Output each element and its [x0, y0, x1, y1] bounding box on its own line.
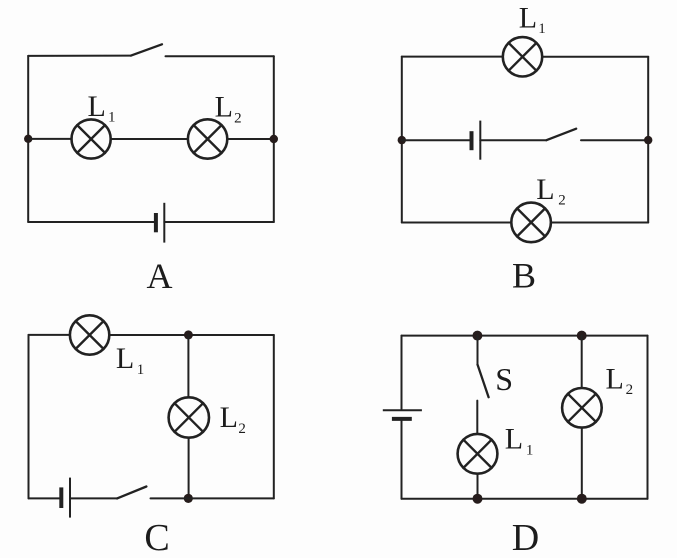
- label L1 (circuit B): [519, 2, 546, 38]
- svg-text:2: 2: [558, 193, 566, 209]
- wire D branch1 middle: [476, 401, 478, 434]
- svg-text:A: A: [147, 256, 173, 296]
- label L2 (circuit C): [220, 401, 246, 437]
- svg-text:L: L: [215, 90, 233, 123]
- wire D branch1 upper: [477, 336, 479, 364]
- svg-text:1: 1: [108, 109, 116, 125]
- node D branch2 top junction: [577, 331, 587, 341]
- wire A right side: [273, 56, 275, 222]
- wire B middle segment 2: [480, 139, 546, 141]
- label L1 (circuit D): [505, 423, 534, 459]
- node C-bottom junction: [184, 494, 193, 503]
- battery B3 (circuit C) short thick plate: [59, 487, 63, 508]
- wire B left side: [401, 57, 403, 223]
- wire A top-right segment: [166, 55, 274, 57]
- wire B middle segment 1: [402, 139, 470, 141]
- wire B bottom-right segment: [551, 222, 648, 224]
- svg-text:2: 2: [626, 382, 634, 398]
- wire C bottom-left segment: [29, 497, 60, 499]
- node B-right junction: [644, 136, 652, 144]
- wire C left side: [28, 335, 30, 499]
- node A-left junction: [24, 135, 32, 143]
- switch S2 blade (circuit B): [546, 129, 576, 141]
- wire D branch2 lower: [581, 428, 583, 499]
- lamp L1 (circuit D): [458, 434, 498, 474]
- wire A bottom-left segment: [28, 221, 154, 223]
- wire B top-right segment: [542, 56, 648, 58]
- wire A top-left segment: [28, 55, 131, 57]
- svg-text:1: 1: [526, 443, 534, 459]
- lamp L1 (circuit C): [70, 315, 109, 354]
- battery B3 (circuit C) long thin plate: [69, 478, 71, 518]
- wire D branch2 upper: [581, 336, 583, 388]
- svg-text:L: L: [505, 423, 523, 456]
- battery B4 (circuit D) long thin plate: [383, 409, 422, 411]
- svg-text:L: L: [88, 90, 106, 123]
- wire C middle branch lower: [188, 438, 190, 499]
- svg-text:S: S: [495, 361, 513, 397]
- node B-left junction: [398, 136, 406, 144]
- lamp L2 (circuit A): [188, 119, 227, 158]
- svg-text:C: C: [144, 517, 169, 558]
- wire B right side: [647, 57, 649, 223]
- label L2 (circuit D): [606, 363, 634, 398]
- wire A left side: [27, 56, 29, 222]
- switch S blade (circuit D): [478, 365, 489, 398]
- wire D top: [402, 335, 648, 337]
- wire B top-left segment: [402, 56, 503, 58]
- svg-text:1: 1: [538, 21, 546, 37]
- wire D left upper: [401, 336, 403, 409]
- wire A middle segment 1: [28, 138, 71, 140]
- wire C top-right segment: [109, 334, 273, 336]
- switch S1 blade (circuit A): [131, 44, 162, 55]
- node D branch1 bottom junction: [473, 494, 483, 504]
- label L2 (circuit B): [536, 173, 566, 209]
- lamp L2 (circuit D): [562, 388, 602, 428]
- svg-text:B: B: [512, 256, 536, 296]
- wire D right side: [647, 336, 649, 499]
- node D branch2 bottom junction: [577, 494, 587, 504]
- svg-text:2: 2: [238, 421, 246, 437]
- svg-text:L: L: [220, 401, 238, 434]
- wire D branch1 lower: [477, 474, 479, 499]
- wire A bottom-right segment: [164, 221, 273, 223]
- svg-text:L: L: [606, 363, 624, 396]
- wire B bottom-left segment: [402, 222, 512, 224]
- svg-text:1: 1: [137, 362, 145, 378]
- battery B1 (circuit A) long thin plate: [163, 203, 165, 243]
- wire A middle segment 3: [227, 138, 273, 140]
- wire C right side: [273, 335, 275, 498]
- wire C bottom-right segment: [151, 497, 274, 499]
- battery B1 (circuit A) short thick plate: [154, 213, 158, 232]
- lamp L2 (circuit C): [169, 397, 209, 437]
- wire C middle branch upper: [187, 335, 189, 398]
- lamp L1 (circuit B): [503, 37, 542, 76]
- switch S3 blade (circuit C): [117, 487, 146, 499]
- lamp L2 (circuit B): [511, 203, 551, 243]
- label L1 (circuit A): [88, 90, 116, 125]
- svg-text:L: L: [116, 342, 134, 375]
- wire D bottom: [402, 498, 648, 500]
- label L1 (circuit C): [116, 342, 144, 378]
- lamp L1 (circuit A): [72, 119, 111, 158]
- svg-text:L: L: [519, 2, 537, 35]
- battery B2 (circuit B) long thin plate: [479, 121, 481, 160]
- svg-text:2: 2: [234, 111, 242, 127]
- svg-text:D: D: [512, 517, 539, 558]
- wire C bottom middle segment: [70, 497, 117, 499]
- wire C top-left segment: [29, 334, 71, 336]
- wire A middle segment 2: [111, 138, 188, 140]
- wire B middle segment 3: [581, 139, 648, 141]
- label L2 (circuit A): [215, 90, 242, 126]
- svg-text:L: L: [536, 173, 554, 206]
- node C-top junction: [184, 330, 193, 339]
- battery B2 (circuit B) short thick plate: [470, 131, 474, 150]
- wire D left lower: [401, 419, 403, 499]
- battery B4 (circuit D) short thick plate: [392, 417, 412, 421]
- node D branch1 top junction: [472, 331, 482, 341]
- node A-right junction: [270, 135, 278, 143]
